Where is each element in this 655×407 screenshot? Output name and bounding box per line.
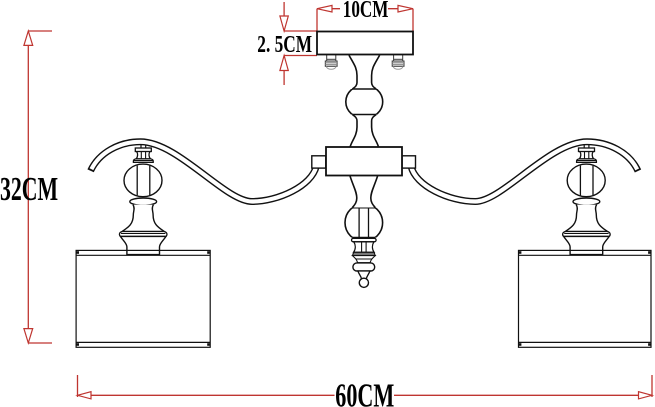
svg-text:10CM: 10CM xyxy=(343,0,389,23)
svg-text:2. 5CM: 2. 5CM xyxy=(257,30,312,58)
svg-text:32CM: 32CM xyxy=(0,171,58,208)
svg-text:60CM: 60CM xyxy=(335,378,394,407)
